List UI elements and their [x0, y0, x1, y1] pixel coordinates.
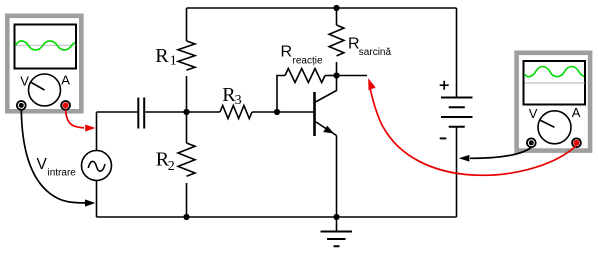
right meter terminal black	[527, 138, 536, 147]
probe wire black right	[470, 147, 531, 158]
wire node to R3	[187, 111, 221, 113]
wire input to capacitor	[97, 111, 138, 113]
wire collector	[315, 76, 337, 103]
svg-text:A: A	[572, 105, 581, 120]
probe wire red left	[66, 110, 84, 128]
left meter terminal red	[61, 101, 70, 110]
node R2 bottom junction	[183, 214, 189, 220]
resistor R2	[178, 143, 195, 176]
wire emitter lead down	[336, 136, 338, 218]
left meter dial	[29, 74, 61, 106]
right meter screen	[524, 61, 586, 105]
battery plate long lower	[441, 116, 473, 118]
right meter terminal red	[572, 138, 581, 147]
svg-text:1: 1	[170, 54, 177, 69]
left multimeter body	[7, 16, 81, 112]
probe wire black left	[21, 110, 86, 203]
right meter needle	[540, 120, 555, 127]
capacitor C1	[138, 98, 144, 129]
battery plate short upper	[449, 106, 465, 108]
svg-text:V: V	[529, 106, 538, 121]
wire R1 top lead	[186, 8, 188, 41]
node base junction	[274, 109, 280, 115]
right meter screen midline	[525, 82, 585, 84]
svg-text:2: 2	[168, 159, 175, 174]
svg-text:V: V	[20, 73, 29, 88]
wire ground lead	[336, 217, 338, 232]
ground symbol	[321, 232, 353, 247]
svg-text:R: R	[281, 44, 293, 61]
resistor Rreactie	[285, 69, 325, 83]
wire R1 bottom lead	[186, 76, 188, 112]
svg-text:A: A	[61, 73, 70, 88]
source Vintrare circle	[82, 151, 112, 181]
resistor R3	[220, 106, 252, 119]
left meter terminal black	[17, 101, 26, 110]
svg-text:3: 3	[235, 93, 242, 108]
label battery minus	[440, 137, 447, 139]
wire Rsarcina top lead	[336, 8, 338, 25]
battery plate short bottom	[449, 126, 465, 128]
label battery plus	[440, 81, 449, 90]
left meter screen	[15, 25, 77, 69]
source sine symbol	[88, 161, 105, 171]
right meter green trace	[525, 66, 585, 76]
transistor Q1 base bar	[313, 92, 316, 136]
probe wire red right	[370, 88, 577, 176]
wire feedback left lead	[277, 76, 285, 113]
transistor Q1 emitter diagonal	[315, 121, 337, 136]
svg-text:V: V	[37, 156, 48, 173]
battery plate long top	[441, 97, 473, 99]
wire bottom rail	[97, 216, 457, 218]
svg-text:R: R	[155, 45, 169, 67]
right multimeter body	[517, 53, 591, 151]
wire top rail	[187, 7, 457, 9]
node top rail junction	[333, 5, 339, 11]
wire base node to transistor	[277, 111, 314, 113]
wire feedback right lead	[325, 75, 337, 77]
left meter green trace	[16, 41, 76, 50]
right meter dial	[538, 111, 571, 144]
node collector junction	[333, 72, 339, 78]
node emitter ground junction	[333, 214, 339, 220]
svg-text:reacție: reacție	[293, 55, 323, 66]
svg-text:sarcină: sarcină	[359, 47, 392, 58]
wire right rail lower	[456, 127, 458, 217]
resistor R1	[178, 41, 195, 70]
wire R2 top lead	[186, 112, 188, 143]
node input junction	[183, 109, 189, 115]
transistor Q1 emitter arrow	[323, 126, 334, 134]
wire R2 bottom lead	[186, 183, 188, 217]
wire right rail upper	[456, 8, 458, 97]
wire left branch upper	[96, 112, 98, 151]
wire Rsarcina bottom lead	[336, 62, 338, 76]
left meter screen midline	[16, 44, 76, 46]
resistor Rsarcina	[329, 25, 344, 56]
wire left branch lower	[96, 181, 98, 218]
wire R3 to base node	[252, 111, 277, 113]
wire capacitor to node	[145, 111, 186, 113]
left meter needle	[30, 82, 45, 90]
wire collector stub	[337, 75, 368, 77]
svg-text:intrare: intrare	[48, 168, 77, 179]
